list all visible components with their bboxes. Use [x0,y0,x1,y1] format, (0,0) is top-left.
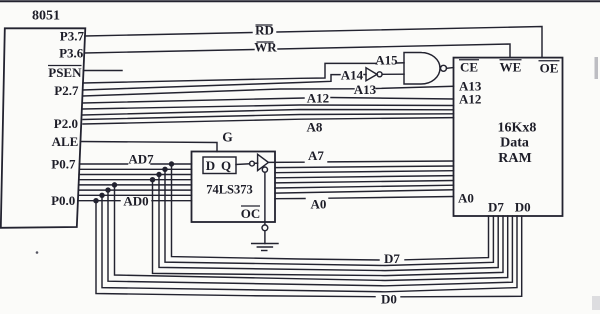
svg-text:A0: A0 [311,197,327,212]
junction dot AD7 [170,162,174,166]
wire A4 [275,176,454,178]
wire ALE to G [81,142,218,152]
RAM 16Kx8 box [454,58,563,216]
8051 box [1,28,86,228]
buffer input circle [250,161,255,166]
wire A5 [275,171,454,173]
svg-text:A0: A0 [458,191,474,206]
wire AD6 [79,168,191,170]
wire A14 (P2.6) [83,75,340,90]
wire A13 (P2.5) to RAM [83,89,354,96]
wire enable to OC pin [264,172,266,225]
svg-text:D7: D7 [384,251,400,266]
svg-text:D: D [206,158,215,173]
wire AD5 [79,174,191,176]
junction dot AD4 [151,178,155,182]
svg-text:Q: Q [221,158,231,173]
scan smudge right edge [595,57,599,79]
svg-text:D0: D0 [515,200,531,215]
svg-text:AD0: AD0 [123,194,148,209]
svg-text:P3.7: P3.7 [60,29,85,44]
wire D4 bus [153,180,504,276]
svg-text:8051: 8051 [32,9,60,24]
wire D0 bus [96,201,375,297]
svg-text:RAM: RAM [498,151,531,166]
wire D7 bus [172,164,380,260]
svg-text:D0: D0 [381,292,397,307]
svg-text:P0.7: P0.7 [51,157,76,172]
svg-text:G: G [222,130,233,145]
wire P3.7 / RD to OE [85,33,252,37]
wire A15 (P2.7) [83,63,376,83]
wire A7 latch to RAM [268,161,304,163]
top border line [0,0,600,2]
svg-text:ALE: ALE [52,134,79,149]
wire AD7 (P0.7) [80,163,128,165]
wire Q to buffer [236,163,250,166]
buffer enable bubble [262,167,267,172]
svg-text:A13: A13 [354,82,377,97]
svg-text:OE: OE [540,61,559,76]
OC pin circle [262,225,268,231]
NAND gate U1 [404,53,440,85]
wire inverter to NAND [382,73,404,75]
wire OC to ground [264,231,266,244]
svg-text:A14: A14 [341,68,364,83]
svg-text:P0.0: P0.0 [51,193,75,208]
junction dot AD6 [163,167,167,171]
svg-text:P2.0: P2.0 [54,116,78,131]
ground [252,243,278,245]
inverter bubble [377,72,382,77]
NAND bubble [441,65,447,71]
svg-text:OC: OC [241,206,261,221]
latch 74LS373 box [192,152,276,223]
wire A1 [275,190,454,193]
wire circle to triangle [254,162,257,164]
svg-text:16Kx8: 16Kx8 [498,121,537,136]
svg-text:A15: A15 [375,53,398,68]
junction dot AD5 [157,173,161,177]
svg-text:D7: D7 [488,200,504,215]
svg-text:PSEN: PSEN [48,65,82,80]
wire AD0 (P0.0) [78,200,120,202]
svg-text:CE: CE [460,60,478,75]
svg-text:A12: A12 [459,92,481,107]
wire A0 latch to RAM [275,198,305,200]
wire A8 [83,118,454,124]
wire D3 bus [115,185,508,281]
svg-text:P2.7: P2.7 [54,83,79,98]
svg-text:Data: Data [500,136,529,151]
inverter A14 [366,68,377,81]
svg-text:WE: WE [500,60,522,75]
wire D1 bus [102,195,517,291]
wire A12 (P2.4) to RAM [83,98,304,103]
latch D-Q cell [203,157,236,174]
svg-text:P3.6: P3.6 [59,46,84,61]
junction dot AD2 [106,188,110,192]
svg-text:A8: A8 [307,120,323,135]
wire D6 bus [165,169,493,265]
wire A11 [83,105,454,109]
junction dot AD0 [94,199,98,203]
junction dot AD3 [113,183,117,187]
wire A9 [83,114,454,120]
wire PSEN stub [84,70,123,72]
wire A3 [275,181,454,183]
wire A6 [275,166,454,168]
wire AD1 [78,194,191,196]
wire AD2 [79,189,192,191]
wire P3.6 / WR to WE [84,50,254,54]
svg-text:AD7: AD7 [128,152,154,167]
svg-text:A12: A12 [307,90,329,105]
wire A10 [83,110,454,116]
tri-state buffer triangle [258,154,269,170]
svg-text:74LS373: 74LS373 [206,183,253,197]
wire D2 bus [108,190,512,286]
wire NAND to CE [447,67,454,70]
svg-text:A7: A7 [308,148,324,163]
junction dot AD1 [100,193,104,197]
wire A2 [275,185,454,188]
wire AD3 [79,184,192,186]
wire D5 bus [159,175,498,271]
wire AD4 [79,179,192,181]
